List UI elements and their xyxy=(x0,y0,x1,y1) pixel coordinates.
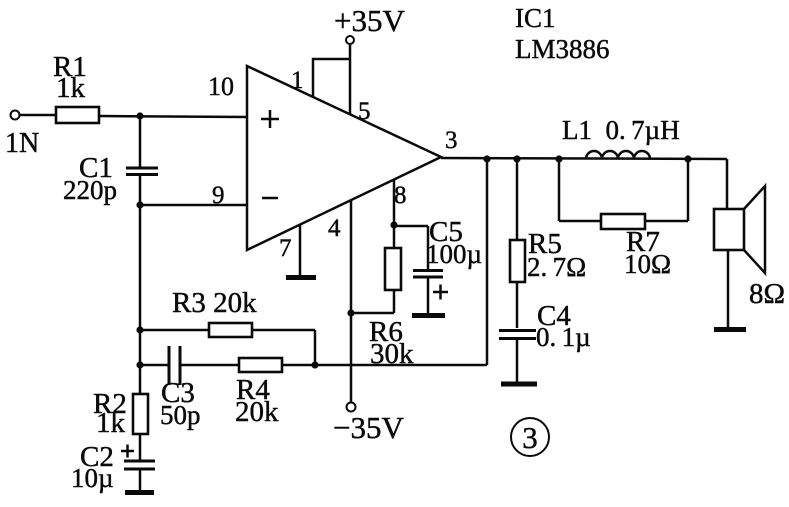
wire R6 bottom to pin4 line xyxy=(351,312,394,315)
svg-text:20k: 20k xyxy=(235,396,279,428)
wire node B down to feedback net xyxy=(139,205,142,394)
capacitor C4 xyxy=(499,300,591,382)
capacitor C2 xyxy=(71,441,155,493)
svg-text:8: 8 xyxy=(394,182,407,209)
svg-text:1k: 1k xyxy=(96,407,126,439)
inductor L1 xyxy=(562,115,680,159)
svg-text:4: 4 xyxy=(328,215,341,242)
wire pin 1 jumper to +35V xyxy=(313,59,350,97)
svg-text:1: 1 xyxy=(291,67,304,94)
svg-text:10µ: 10µ xyxy=(71,463,114,493)
svg-text:+35V: +35V xyxy=(334,3,405,38)
svg-text:0. 1µ: 0. 1µ xyxy=(536,322,591,352)
node R3 junction xyxy=(136,326,143,333)
svg-text:10Ω: 10Ω xyxy=(624,249,671,279)
ground (below speaker) xyxy=(714,327,746,332)
ground (below C2) xyxy=(125,490,154,495)
svg-text:10: 10 xyxy=(208,72,234,101)
resistor R1 xyxy=(53,51,99,123)
resistor R3 xyxy=(140,287,315,365)
resistor R5 xyxy=(510,159,586,328)
wire node B to op-amp inverting input xyxy=(140,204,247,207)
wire pin 8 down xyxy=(393,180,396,225)
node pin4/R6 junction xyxy=(347,309,354,316)
svg-text:1k: 1k xyxy=(56,72,86,104)
svg-text:9: 9 xyxy=(212,182,225,209)
svg-text:1N: 1N xyxy=(5,128,39,159)
ground (below C5) xyxy=(412,313,445,318)
wire output node 3 xyxy=(441,158,727,159)
node R5 tap xyxy=(513,155,520,162)
svg-text:IC1: IC1 xyxy=(515,3,556,33)
node pin8 junction xyxy=(390,221,397,228)
svg-text:L1 0. 7µH: L1 0. 7µH xyxy=(562,115,680,145)
speaker 8 ohm xyxy=(714,159,785,328)
-35V supply terminal xyxy=(333,403,404,446)
resistor R7 loop xyxy=(559,159,688,279)
node R7 left tap xyxy=(555,155,562,162)
capacitor C1 xyxy=(63,116,158,205)
capacitor C3 xyxy=(160,346,201,430)
svg-text:8Ω: 8Ω xyxy=(749,278,785,310)
node A (noninverting input net) xyxy=(136,112,143,119)
wire pin 7 to ground xyxy=(299,225,302,276)
node C3 junction xyxy=(136,361,143,368)
wire feedback vertical xyxy=(486,159,489,365)
input terminal 1N xyxy=(5,111,39,160)
ground (pin 7) xyxy=(286,275,316,280)
node R3/R4 junction xyxy=(311,361,318,368)
svg-text:5: 5 xyxy=(358,98,371,125)
svg-text:100µ: 100µ xyxy=(426,239,482,269)
svg-text:50p: 50p xyxy=(160,400,201,430)
op-amp U1 LM3886 xyxy=(247,66,441,250)
wire feedback horizontal net xyxy=(140,364,168,367)
+35V supply terminal xyxy=(334,3,405,114)
figure number 3 (circled) xyxy=(511,418,549,456)
resistor R4 xyxy=(181,358,487,428)
capacitor C5 xyxy=(394,216,482,313)
resistor R2 xyxy=(93,388,148,460)
wire input to R1 xyxy=(20,114,57,117)
wire pin 4 to -35V terminal xyxy=(350,200,353,403)
svg-text:−35V: −35V xyxy=(333,410,404,445)
node R7 right tap xyxy=(684,155,691,162)
node B (inverting input net) xyxy=(136,201,143,208)
svg-text:220p: 220p xyxy=(63,175,117,205)
svg-text:2. 7Ω: 2. 7Ω xyxy=(527,252,586,282)
svg-text:R3 20k: R3 20k xyxy=(172,287,257,319)
wire R1 to node A xyxy=(99,116,247,117)
node feedback tap xyxy=(483,155,490,162)
svg-text:LM3886: LM3886 xyxy=(515,34,610,64)
svg-text:7: 7 xyxy=(279,235,292,262)
svg-text:3: 3 xyxy=(445,127,458,154)
svg-text:3: 3 xyxy=(522,420,538,455)
resistor R6 xyxy=(369,225,414,370)
ground (below C4) xyxy=(501,382,537,387)
